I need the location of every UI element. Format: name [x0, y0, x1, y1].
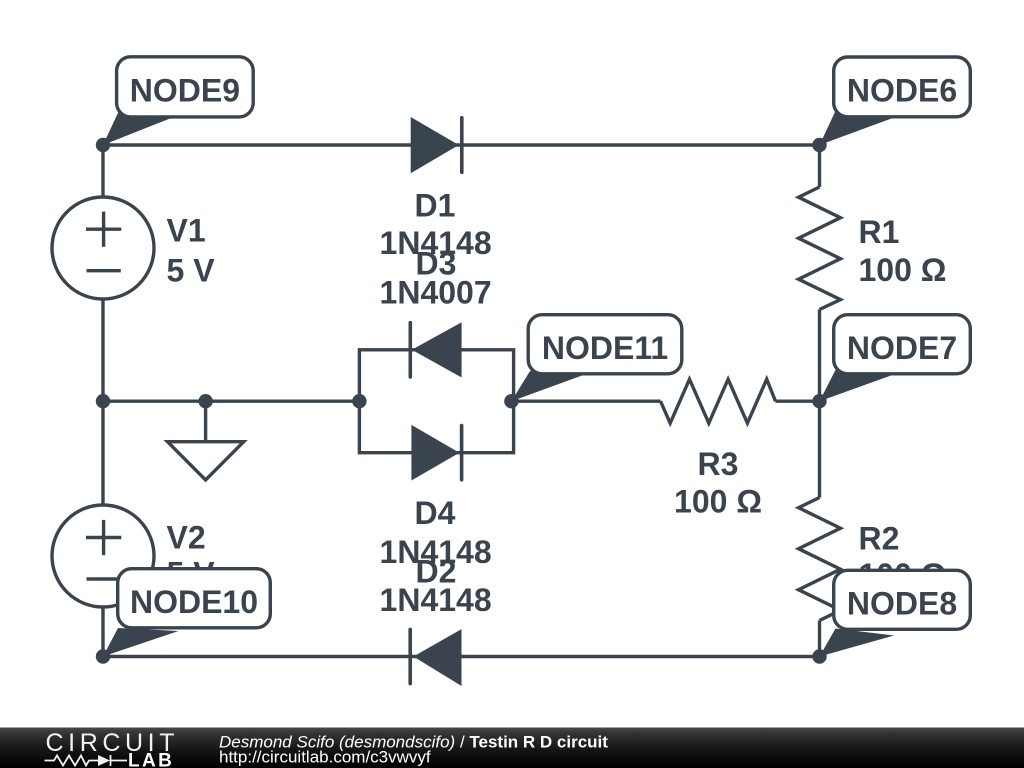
node NODE10 callout	[103, 569, 270, 657]
footer bar	[0, 728, 1024, 768]
diode D1	[411, 117, 462, 173]
svg-text:NODE9: NODE9	[130, 72, 240, 108]
svg-text:NODE11: NODE11	[542, 330, 668, 366]
node junction dot mid-right	[812, 394, 826, 408]
svg-text:100 Ω: 100 Ω	[859, 252, 947, 288]
svg-text:R1: R1	[859, 214, 900, 250]
svg-text:R2: R2	[859, 521, 900, 557]
resistor R1	[799, 187, 841, 310]
wire right rail R1 to node7	[818, 310, 821, 402]
voltage source V1	[52, 197, 154, 299]
svg-text:NODE6: NODE6	[847, 73, 957, 109]
node NODE7 callout	[820, 315, 971, 402]
node junction dot bridge right	[504, 394, 518, 408]
wire diode bridge box	[359, 350, 513, 453]
node junction dot ground	[198, 394, 212, 408]
svg-text:V1: V1	[167, 213, 206, 249]
resistor R2	[799, 498, 841, 621]
diode D3	[410, 322, 461, 377]
diode D4	[411, 425, 461, 481]
node junction dot mid-left	[96, 394, 110, 408]
svg-text:5 V: 5 V	[167, 252, 216, 288]
svg-text:D4: D4	[415, 495, 456, 531]
node junction dot top-left	[96, 138, 110, 152]
wire left rail upper (node9 to V1)	[101, 145, 104, 197]
wire left rail V1 to mid	[101, 299, 104, 401]
node NODE9 callout	[103, 57, 253, 145]
svg-text:R3: R3	[698, 446, 739, 482]
wire right rail top (node6 to R1)	[818, 145, 821, 187]
node NODE8 callout	[820, 570, 971, 656]
node junction dot top-right	[812, 138, 826, 152]
wire right rail R2 to node8	[818, 621, 821, 657]
wire mid rail left	[103, 400, 359, 403]
wire mid rail right of diode box	[511, 400, 660, 403]
ground	[168, 401, 244, 480]
svg-text:NODE10: NODE10	[130, 584, 258, 620]
voltage source V2	[52, 505, 154, 607]
CircuitLab logo diode arrow	[98, 755, 110, 766]
node junction dot bridge left	[352, 394, 366, 408]
wire left rail V2 to bottom	[101, 607, 104, 657]
svg-text:V2: V2	[167, 520, 206, 556]
svg-text:LAB: LAB	[128, 750, 174, 768]
wire mid rail to right rail	[776, 400, 820, 403]
node junction dot bottom-right	[812, 649, 826, 663]
svg-text:NODE7: NODE7	[847, 330, 957, 366]
svg-text:100 Ω: 100 Ω	[674, 484, 762, 520]
node NODE6 callout	[820, 57, 971, 145]
wire top rail	[103, 143, 820, 146]
node NODE11 callout	[511, 315, 681, 402]
svg-text:1N4007: 1N4007	[380, 275, 492, 311]
wire left rail mid to V2	[101, 401, 104, 505]
svg-text:1N4148: 1N4148	[380, 582, 492, 618]
wire bottom rail	[103, 655, 820, 658]
wire right rail node7 to R2	[818, 401, 821, 497]
svg-text:http://circuitlab.com/c3vwvyf: http://circuitlab.com/c3vwvyf	[219, 747, 431, 766]
svg-text:D1: D1	[415, 187, 456, 223]
resistor R3	[661, 379, 776, 423]
node junction dot bottom-left	[96, 649, 110, 663]
svg-text:NODE8: NODE8	[847, 585, 957, 621]
CircuitLab logo resistor-diode line	[45, 755, 128, 766]
diode D2	[410, 629, 461, 686]
